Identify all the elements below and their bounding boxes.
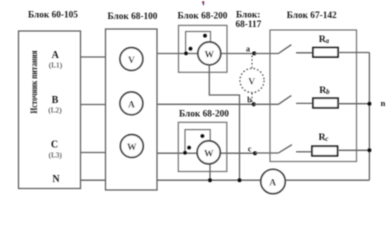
wire Rc to bus — [338, 149, 370, 151]
svg-text:n: n — [381, 98, 386, 108]
wattmeter W2 circle (bottom 68-200) — [197, 141, 220, 164]
wire A source to 68-100 — [81, 56, 106, 58]
wire node c to block 67-142 — [255, 152, 278, 154]
wattmeter (bottom) terminal dot 2 — [187, 146, 191, 150]
wire A 68-100 to node a — [157, 53, 254, 55]
svg-text:V: V — [128, 56, 135, 66]
svg-text:Блок:: Блок: — [236, 10, 260, 20]
svg-text:b: b — [247, 95, 252, 104]
voltmeter 68-117 dashed lead top — [251, 56, 253, 69]
junction dot W2 return on N wire — [208, 178, 212, 182]
svg-text:V: V — [248, 78, 255, 88]
wire Rb to bus (node n) — [338, 103, 369, 105]
svg-text:A: A — [269, 179, 276, 189]
ammeter A circle (neutral) — [261, 169, 285, 193]
svg-text:W: W — [204, 149, 214, 159]
wire node a to block 67-142 — [254, 53, 278, 55]
junction dot W1 return on N wire — [238, 178, 242, 182]
wattmeter block 68-200 (bottom) outer box — [178, 122, 227, 171]
voltmeter 68-117 dashed lead bottom — [251, 93, 253, 103]
switch Sa blade — [278, 45, 291, 54]
svg-text:Источник питания: Источник питания — [29, 50, 40, 114]
svg-text:c: c — [248, 145, 252, 154]
resistor Ra — [313, 48, 338, 57]
wattmeter (top) terminal dot 1 — [184, 52, 188, 56]
node c dot — [253, 151, 257, 155]
wattmeter W1 circle (top 68-200) — [198, 42, 221, 65]
svg-text:Блок 68-100: Блок 68-100 — [108, 12, 158, 22]
resistor Rc — [312, 146, 338, 156]
svg-text:A: A — [52, 50, 60, 61]
svg-text:(L1): (L1) — [49, 60, 63, 69]
wire N source to 68-100 — [81, 179, 106, 181]
switch Sa out wire — [296, 52, 313, 54]
voltmeter V circle dashed (68-117) — [240, 69, 264, 93]
wire Ra to bus — [338, 52, 369, 54]
wattmeter (top) terminal dot 3 — [203, 34, 207, 38]
wattmeter block 68-200 (top) outer box — [179, 25, 228, 72]
wire B source to 68-100 — [81, 104, 106, 106]
svg-text:C: C — [51, 140, 58, 151]
svg-text:(L3): (L3) — [49, 151, 63, 160]
neutral bus vertical — [368, 53, 370, 181]
wattmeter (top) inner box — [186, 32, 211, 54]
wire ammeter to bus — [285, 179, 369, 181]
wattmeter (top) return wire down — [209, 65, 239, 180]
svg-text:c: c — [325, 136, 328, 143]
svg-text:68-117: 68-117 — [236, 20, 262, 30]
wattmeter (bottom) terminal dot 3 — [201, 134, 205, 138]
node a dot — [252, 51, 256, 55]
wattmeter (bottom) inner box — [185, 130, 210, 154]
svg-text:(L2): (L2) — [48, 105, 62, 114]
wire node b to block 67-142 — [254, 103, 279, 105]
wattmeter W circle (68-100) — [120, 135, 143, 158]
svg-text:Блок 60-105: Блок 60-105 — [28, 10, 78, 20]
switch Sc blade — [278, 145, 292, 153]
switch Sb out wire — [296, 102, 313, 104]
svg-text:Блок 68-200: Блок 68-200 — [179, 110, 229, 120]
svg-text:A: A — [128, 100, 135, 110]
power source block 60-105 box — [19, 31, 81, 189]
svg-text:a: a — [246, 45, 250, 54]
resistor Rb — [313, 98, 338, 108]
wire C 68-100 to node c — [157, 152, 255, 154]
switch Sc out wire — [296, 151, 312, 153]
switch Sb blade — [278, 96, 291, 105]
svg-text:Блок 67-142: Блок 67-142 — [287, 11, 337, 21]
ammeter A circle (68-100) — [120, 92, 143, 115]
svg-text:B: B — [52, 95, 59, 106]
wattmeter (bottom) terminal dot 1 — [183, 151, 187, 155]
svg-text:W: W — [205, 50, 215, 60]
wattmeter (top) terminal dot 2 — [189, 47, 193, 51]
wire C source to 68-100 — [81, 152, 106, 154]
voltmeter V circle (68-100) — [120, 48, 143, 71]
wire N 68-100 to ammeter — [157, 179, 262, 181]
svg-text:Блок 68-200: Блок 68-200 — [178, 11, 228, 21]
svg-text:a: a — [326, 38, 330, 45]
svg-text:N: N — [52, 174, 60, 185]
node b dot — [252, 102, 256, 106]
wattmeter (bottom) return wire down — [209, 164, 211, 180]
junction dot Rc-bus — [367, 148, 371, 152]
load block 67-142 box — [270, 30, 357, 162]
scan artifact apostrophe — [202, 1, 204, 5]
svg-text:W: W — [127, 143, 137, 153]
svg-text:b: b — [326, 89, 330, 96]
meter block 68-100 box — [106, 29, 158, 190]
wire B 68-100 to node b — [157, 103, 254, 105]
node n dot — [367, 102, 371, 106]
